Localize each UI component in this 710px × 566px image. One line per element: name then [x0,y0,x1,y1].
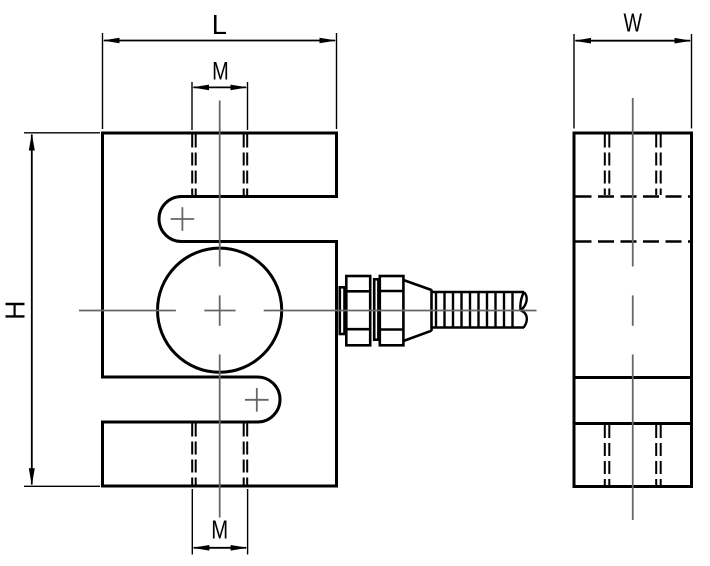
svg-text:H: H [0,301,31,320]
svg-text:L: L [212,8,227,39]
svg-text:M: M [212,57,229,85]
svg-text:M: M [211,515,228,544]
svg-text:W: W [624,8,643,37]
